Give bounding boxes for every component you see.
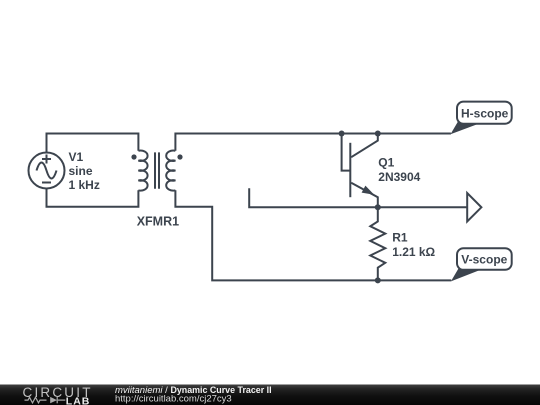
svg-text:R1: R1 xyxy=(392,230,408,244)
svg-text:V1: V1 xyxy=(69,150,84,164)
svg-text:1 kHz: 1 kHz xyxy=(69,178,100,192)
svg-text:LAB: LAB xyxy=(66,395,91,405)
svg-text:sine: sine xyxy=(69,164,93,178)
svg-text:H-scope: H-scope xyxy=(461,107,509,121)
svg-text:http://circuitlab.com/cj27cy3: http://circuitlab.com/cj27cy3 xyxy=(115,393,232,404)
svg-text:XFMR1: XFMR1 xyxy=(137,214,179,228)
svg-text:2N3904: 2N3904 xyxy=(378,170,420,184)
svg-text:Q1: Q1 xyxy=(378,156,394,170)
svg-text:1.21 kΩ: 1.21 kΩ xyxy=(392,245,435,259)
svg-text:V-scope: V-scope xyxy=(461,252,507,266)
